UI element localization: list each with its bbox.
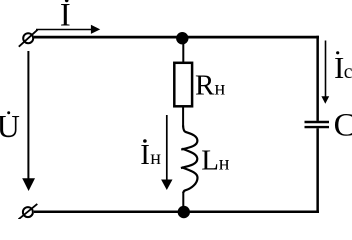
svg-text:I: I xyxy=(334,50,344,85)
current arrow IH xyxy=(161,115,172,190)
node bottom junction xyxy=(178,206,190,218)
current arrow Ic xyxy=(321,41,329,104)
svg-text:н: н xyxy=(219,152,230,174)
resistor RH xyxy=(174,63,192,107)
svg-text:L: L xyxy=(201,144,219,176)
label I xyxy=(60,0,71,33)
label RH xyxy=(195,70,226,102)
svg-text:C: C xyxy=(334,107,352,143)
svg-text:c: c xyxy=(344,62,352,83)
node top junction xyxy=(176,32,188,44)
terminal bottom-left xyxy=(19,204,38,219)
wire bottom xyxy=(34,211,319,214)
wire node to resistor xyxy=(182,38,184,62)
svg-text:I: I xyxy=(140,139,150,171)
terminal top-left xyxy=(19,30,38,47)
label U xyxy=(0,108,20,144)
label LH xyxy=(201,144,230,176)
wire resistor to inductor xyxy=(182,106,184,127)
label IH xyxy=(140,139,161,171)
capacitor C xyxy=(305,122,330,127)
svg-text:I: I xyxy=(60,0,71,33)
voltage arrow U xyxy=(22,51,35,191)
wire top xyxy=(34,36,319,39)
svg-text:н: н xyxy=(215,78,226,100)
wire right lower xyxy=(316,128,319,213)
current arrow I xyxy=(36,25,100,34)
svg-text:R: R xyxy=(195,70,215,102)
inductor LH xyxy=(181,126,198,194)
svg-text:н: н xyxy=(150,147,161,169)
wire right upper xyxy=(316,36,319,121)
wire inductor to bottom node xyxy=(182,192,184,212)
label Ic xyxy=(334,50,352,85)
